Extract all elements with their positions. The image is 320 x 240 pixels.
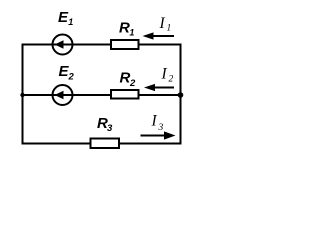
junction node left (middle branch to left rail) — [20, 93, 24, 97]
wire: left rail — [22, 44, 24, 145]
svg-text:2: 2 — [169, 75, 174, 85]
label I3 — [151, 113, 164, 134]
svg-text:2: 2 — [68, 72, 75, 83]
EMF source E2 — [52, 85, 73, 105]
label I2 — [161, 66, 174, 85]
svg-text:3: 3 — [158, 123, 164, 133]
label R3 — [97, 115, 113, 134]
wire: middle branch — [22, 94, 182, 96]
resistor R1 — [111, 40, 139, 49]
wire: right rail — [180, 44, 182, 145]
svg-text:I: I — [151, 113, 158, 130]
EMF source E1 — [52, 35, 73, 55]
label R2 — [120, 70, 137, 90]
current arrow I1 — [143, 32, 175, 39]
resistor R3 — [91, 139, 120, 149]
svg-text:R: R — [119, 20, 130, 37]
svg-text:1: 1 — [167, 24, 172, 34]
current arrow I2 — [144, 84, 174, 91]
wire: top branch — [22, 44, 182, 46]
current arrow I3 — [141, 131, 176, 139]
wire: bottom branch — [22, 143, 182, 145]
junction node right (middle branch to right rail) — [178, 92, 184, 98]
svg-text:I: I — [159, 15, 166, 32]
label I1 — [159, 15, 172, 34]
svg-text:R: R — [120, 70, 131, 87]
svg-text:I: I — [161, 66, 168, 83]
label E2 — [59, 63, 75, 83]
svg-text:2: 2 — [129, 78, 136, 89]
svg-text:1: 1 — [129, 28, 134, 38]
svg-text:3: 3 — [107, 123, 113, 134]
label E1 — [58, 9, 73, 27]
label R1 — [119, 20, 134, 38]
svg-text:1: 1 — [68, 17, 73, 27]
resistor R2 — [111, 90, 139, 99]
